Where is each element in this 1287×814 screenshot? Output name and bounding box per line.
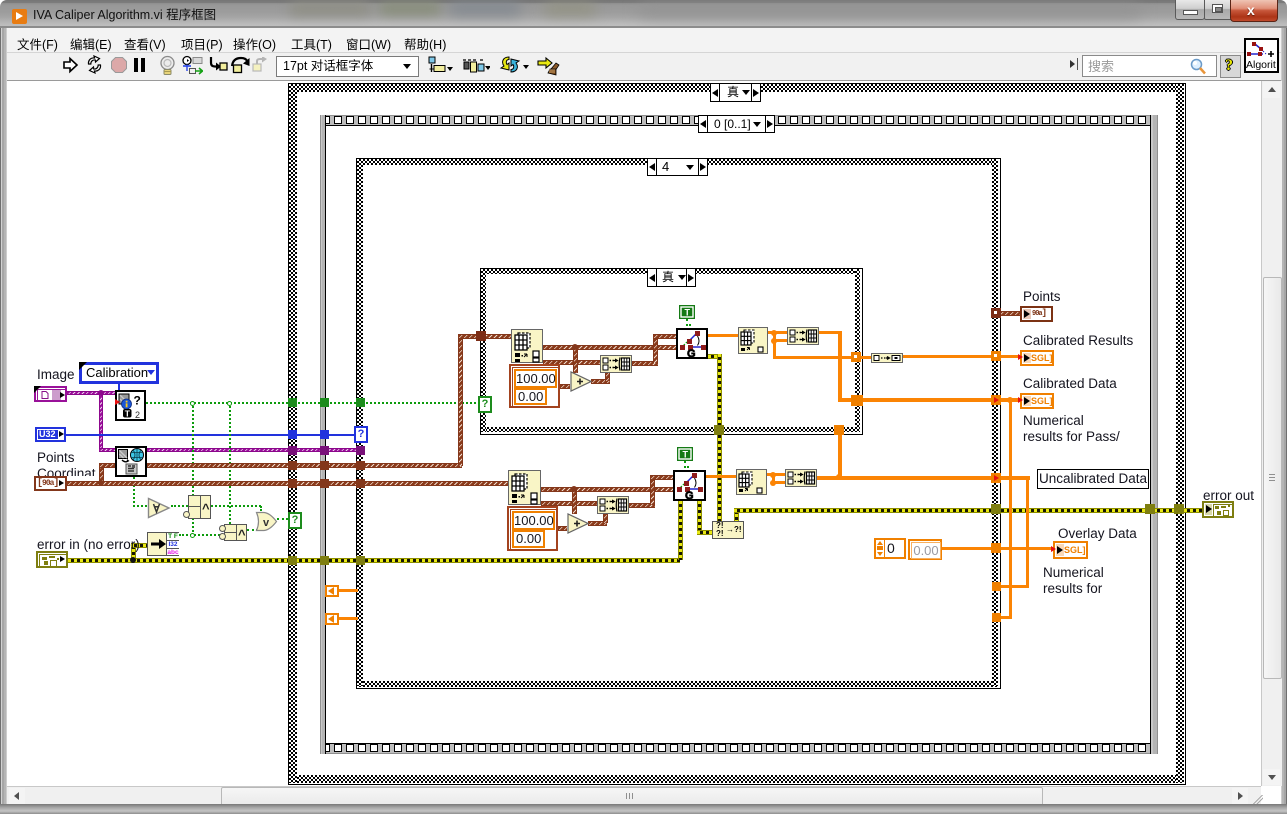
outer case label 真	[710, 83, 761, 102]
node compound AND 2	[224, 524, 247, 541]
wire: green and2->or	[247, 529, 262, 531]
node IMAQ Check Calibration (node1)	[115, 390, 146, 421]
wire: Calibration enum stem	[118, 384, 120, 391]
wire: seq local 1	[339, 589, 358, 592]
wire: seq local 2	[339, 617, 358, 620]
wire: green drop to AND2	[229, 403, 231, 524]
sequence local 2	[325, 613, 339, 625]
wire: green and1->or	[211, 505, 261, 507]
wire: add1b rise to replace1b	[603, 514, 608, 523]
tunnel olive seq left	[320, 556, 329, 565]
wire: brown vertical riser case4	[458, 334, 463, 466]
menu bar	[7, 28, 1283, 53]
node And Array Elements (forall)	[147, 496, 172, 520]
tunnel brown1 outer	[288, 461, 297, 470]
window left border	[0, 28, 7, 814]
wire: const1b out	[558, 526, 567, 531]
tunnel purple case4	[356, 446, 365, 455]
label Uncalibrated Data (boxed)	[1037, 469, 1149, 489]
wire: caliper1 error right	[708, 354, 722, 359]
abort button (dimmed)	[110, 56, 128, 74]
wire: inner bottom tunnel drop	[838, 434, 842, 478]
indicator error out	[1202, 501, 1234, 518]
case selector ? (outer, green)	[288, 512, 302, 529]
case selector ? (inner, green)	[478, 396, 492, 413]
tunnel blue outer	[288, 430, 297, 439]
wire: error in main	[68, 558, 680, 563]
close button	[1230, 0, 1278, 22]
node Replace Subset 1b	[597, 496, 629, 514]
constant T (2)	[677, 447, 693, 461]
inverter bubble and1	[183, 511, 190, 518]
tunnel orange case4 right (uncalibrated)	[991, 473, 1001, 483]
wire: replace1 out	[632, 361, 658, 366]
constant 0.00 (grey)	[908, 539, 942, 560]
sequence label 0 [0..1]	[698, 115, 775, 133]
constant 0 (overlay group)	[874, 538, 906, 559]
wire: calibrated data vertical	[1009, 400, 1012, 619]
wire: index2 stub2	[773, 339, 787, 342]
wire: T1 stem	[686, 319, 688, 326]
case structure "4" border	[356, 158, 1001, 689]
wire: points brown main	[67, 481, 508, 486]
outer case structure border	[288, 83, 1186, 785]
wire: uncal L to tunnel	[997, 585, 1029, 588]
label Image	[37, 367, 75, 383]
retain wire values	[181, 55, 203, 76]
label error in	[37, 537, 140, 553]
search box	[1082, 55, 1217, 77]
junction dots	[771, 330, 777, 336]
wire: brown rise at junction	[99, 464, 104, 483]
wire: green node2 down	[133, 477, 135, 507]
tunnel purple seq	[320, 446, 329, 455]
wire: brown into inner case/index1	[458, 334, 511, 339]
tunnel olive case4 left	[356, 556, 365, 565]
tunnel olive outer right	[1174, 504, 1184, 514]
svg-text:?: ?	[134, 394, 141, 408]
tunnel olive case4 right	[991, 504, 1001, 514]
inverter bubbles and2	[219, 525, 226, 532]
align objects	[427, 56, 453, 74]
wire: drop to big tunnel	[838, 331, 842, 401]
constant cluster 100/0 (2)	[507, 506, 558, 551]
wire: caliper1b result orange	[706, 475, 736, 478]
wire: rise to caliper1b	[650, 475, 655, 505]
tunnel brown2 seq	[320, 479, 329, 488]
constant Calibration (enum)	[79, 362, 159, 384]
tunnel maroon case4 right (Points)	[991, 308, 1001, 318]
font selector box	[276, 56, 419, 77]
node Add 1	[570, 371, 592, 392]
label Points Coordinat	[37, 450, 96, 476]
wire: into caliper1b top input	[650, 475, 673, 480]
tunnel brown1 seq	[320, 461, 329, 470]
indicator Calibrated Data	[1020, 393, 1054, 409]
wire: overlay const out	[942, 547, 995, 550]
wire: add1 out	[591, 379, 610, 384]
tunnel blue seq	[320, 430, 329, 439]
node IMAQ Caliper 1b	[673, 470, 706, 501]
wire: green or top drop	[260, 506, 262, 514]
tunnel orange case4 right (overlay)	[991, 543, 1001, 553]
svg-text:T: T	[125, 409, 131, 419]
wire: green to forall	[133, 505, 147, 507]
wire: bottom L to tunnel	[997, 616, 1012, 619]
tunnel orange small inner right	[851, 352, 861, 362]
run continuously	[84, 55, 105, 75]
node Index Array 1b	[508, 470, 541, 505]
wire: const1 out	[560, 384, 570, 389]
tunnel orange case4 right (n1)	[992, 582, 1001, 591]
node Replace Subset 1	[600, 355, 632, 373]
node Index Array 2b	[736, 469, 767, 495]
label Numerical results for (clipped)	[1043, 565, 1104, 599]
step into	[208, 56, 228, 75]
window bottom border	[0, 804, 1287, 814]
wire: green drop to AND1/junction	[192, 403, 194, 536]
indicator Calibrated Results	[1020, 350, 1054, 366]
wire: index2b out	[767, 473, 785, 476]
wire: tunnel to arr2cluster	[860, 356, 872, 359]
wire: image purple junction drop	[99, 392, 103, 451]
inner case structure border	[480, 268, 863, 435]
svg-text:2: 2	[135, 410, 140, 419]
node Index Array 2	[738, 327, 768, 354]
node Add 1b	[567, 513, 589, 534]
node Unbundle error	[147, 532, 179, 556]
tunnel olive seq right	[1145, 504, 1155, 514]
highlight execution (bulb)	[158, 55, 177, 76]
toolbar overflow chevron	[1070, 60, 1075, 68]
control error in	[36, 551, 68, 568]
tunnel orange big inner right	[851, 395, 863, 406]
node compound AND 1	[188, 495, 211, 519]
tunnel brown1 case4	[356, 461, 365, 470]
tunnel olive outer left	[288, 556, 297, 565]
node Merge Errors	[712, 521, 744, 539]
wire: error rise to caliper1b	[678, 501, 683, 560]
indicator Overlay Data SGL	[1053, 541, 1088, 559]
tunnel maroon inner left	[476, 331, 486, 341]
node Array To Cluster (flat)	[871, 353, 903, 363]
vertical scrollbar	[1261, 81, 1282, 786]
wire: T1b stem	[684, 461, 686, 468]
wire: index1b out1	[541, 487, 673, 492]
wire: caliper1 error down to merge	[717, 354, 722, 521]
sequence local 1	[325, 585, 339, 597]
pause button	[134, 58, 138, 72]
tunnel olive inner bottom	[714, 425, 724, 435]
window right border	[1281, 28, 1287, 814]
node OR gate	[255, 511, 278, 532]
node Index Array 1	[511, 329, 543, 363]
wire: image purple Image->node1	[67, 391, 115, 395]
control Image (IMAQ image)	[34, 386, 67, 402]
svg-text:T: T	[685, 308, 691, 318]
wire: index1b out2	[541, 501, 597, 506]
wire: error unbundle stub	[131, 543, 147, 548]
wire: big tunnel to Calibrated Data	[861, 398, 1020, 402]
wire: Points brown to indicator	[999, 311, 1020, 316]
wire: image purple to node2	[99, 448, 115, 452]
run button	[62, 56, 79, 74]
wire: image purple node2 out to case tunnel	[147, 448, 361, 452]
label Calibrated Results	[1023, 333, 1133, 349]
window title bar	[0, 0, 1287, 28]
wire: into big tunnel	[838, 398, 854, 402]
node Replace Subset 2b	[785, 469, 817, 487]
svg-text:G: G	[687, 348, 696, 357]
constant cluster 100/0 (1)	[509, 364, 560, 408]
step over	[230, 55, 251, 74]
svg-text:v: v	[263, 517, 270, 529]
tunnel green outer	[288, 398, 297, 407]
wire: error rise to unbundle	[131, 543, 136, 560]
constant T (1)	[679, 305, 695, 319]
node Replace Subset 2	[787, 327, 819, 345]
horizontal scrollbar	[7, 786, 1261, 805]
tunnel orange inner bottom	[834, 425, 844, 435]
wire: add1 rise to replace1	[605, 372, 610, 381]
tunnel orange case4 right (results)	[991, 351, 1001, 361]
tunnel orange case4 right (calibrated data)	[991, 395, 1001, 405]
label error out	[1203, 488, 1254, 504]
reorder/clean up	[536, 55, 562, 76]
wire: caliper1b error down	[697, 501, 702, 534]
maximize button	[1204, 0, 1232, 20]
label Overlay Data	[1058, 526, 1137, 542]
step out (dimmed)	[251, 57, 271, 75]
wire: caliper1 result orange	[708, 334, 738, 337]
tunnel green seq	[320, 398, 329, 407]
wire: into caliper1 top input	[653, 334, 676, 339]
wire: index2 drop	[773, 331, 776, 358]
wire: replace1b out	[629, 503, 655, 508]
wire: index1 out1	[543, 345, 676, 350]
help button	[1220, 55, 1241, 78]
VI icon (Algorit)	[1244, 38, 1279, 73]
control U32	[35, 427, 66, 442]
label Calibrated Data	[1023, 376, 1117, 392]
wire: uncalibrated vertical	[1026, 478, 1029, 588]
tunnel brown2 case4	[356, 479, 365, 488]
wire: green forall->and1	[171, 505, 188, 507]
wire: replace2 out	[819, 331, 842, 334]
wire: index1 out2	[543, 360, 600, 365]
sequence structure border (filmstrip)	[320, 115, 1158, 126]
wire: boolean main green	[146, 402, 480, 404]
svg-text:T: T	[683, 450, 689, 460]
wire: brown to node2	[99, 463, 115, 468]
wire: error out main	[734, 508, 1202, 513]
label Numerical results for Pass (clipped)	[1023, 413, 1120, 441]
window title text	[33, 8, 216, 23]
label Points (right)	[1023, 289, 1061, 305]
toolbar	[7, 53, 1283, 81]
wire: green or bottom rise	[260, 524, 262, 530]
node IMAQ Convert Calibration (node2)	[115, 446, 147, 477]
LabVIEW app icon	[12, 9, 27, 24]
wire: uncalibrated main	[817, 476, 1030, 480]
inner case label 真	[647, 268, 696, 287]
wire: merge out rise	[734, 508, 739, 521]
tunnel orange case4 right (n2)	[992, 613, 1001, 622]
resize objects	[499, 55, 529, 75]
wire: U32 blue	[66, 434, 356, 436]
tunnel brown2 outer	[288, 479, 297, 488]
indicator Points	[1020, 306, 1053, 322]
wire: to inner tunnel small	[773, 356, 855, 359]
wire: overlay to SGL	[1000, 547, 1055, 550]
wire: index2 out	[768, 331, 787, 334]
wire: add1b out	[588, 521, 607, 526]
wire: index2b stub2	[772, 481, 785, 484]
wire: green or->selector	[277, 518, 288, 520]
wire: caliper1b error to merge	[697, 530, 712, 535]
case selector ? (case 4, blue)	[354, 426, 368, 443]
tunnel green case4	[356, 398, 365, 407]
wire: arr2cluster to Calibrated Results	[903, 355, 1020, 358]
wire: green unbundle TF	[179, 534, 224, 536]
wire: brown drop to add1b	[572, 489, 577, 514]
distribute objects	[462, 56, 490, 74]
svg-text:G: G	[685, 490, 694, 499]
control Points Coordinates	[34, 476, 67, 491]
minimize button	[1175, 0, 1205, 20]
wire: brown drop to add1	[573, 347, 578, 373]
wire: index2b drop	[772, 473, 775, 483]
case 4 label	[647, 158, 708, 176]
tunnel purple outer	[288, 446, 297, 455]
wire: rise to caliper1	[653, 334, 658, 363]
node IMAQ Caliper 1	[676, 328, 708, 359]
wire: brown node2 out	[147, 463, 462, 468]
